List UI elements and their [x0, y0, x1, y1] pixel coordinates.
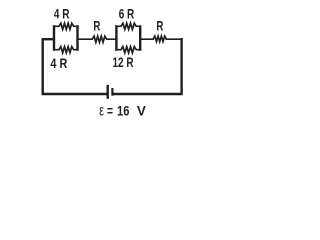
svg-text:R: R — [156, 19, 163, 34]
svg-text:R: R — [93, 18, 100, 33]
node right block right bar — [139, 25, 141, 51]
svg-text:6 R: 6 R — [119, 6, 135, 21]
wire feed to left parallel block — [42, 38, 55, 40]
resistor R middle series with wires — [78, 36, 117, 42]
battery plate long — [106, 85, 108, 99]
node left block right bar — [76, 25, 78, 51]
wire right vertical and bottom-right — [114, 39, 182, 94]
wire left vertical and bottom-left — [43, 38, 107, 94]
svg-text:4 R: 4 R — [54, 6, 70, 21]
svg-text:4 R: 4 R — [50, 56, 67, 71]
resistor R right series with wire to right corner — [140, 36, 180, 42]
svg-text:16: 16 — [117, 104, 130, 119]
resistor 4R top branch — [54, 23, 78, 29]
resistor 12R bottom branch — [116, 47, 140, 53]
svg-text:ε: ε — [99, 103, 104, 120]
battery plate short — [111, 88, 113, 96]
svg-text:=: = — [107, 104, 113, 119]
svg-text:12 R: 12 R — [113, 55, 134, 70]
svg-text:V: V — [137, 104, 147, 119]
resistor 6R top branch — [116, 23, 140, 29]
node right block left bar — [115, 25, 117, 51]
node left block left bar — [53, 25, 55, 51]
resistor 4R bottom branch — [54, 47, 78, 53]
